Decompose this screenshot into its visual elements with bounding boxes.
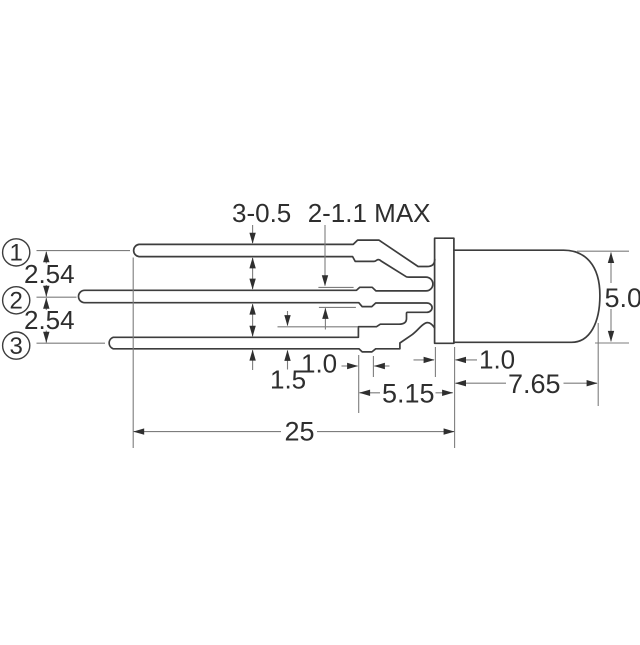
pin circle 3 xyxy=(3,332,30,359)
extension line lead1 left end xyxy=(132,258,134,449)
dim 1.5 xyxy=(287,311,289,326)
reference line lead2 coin bottom xyxy=(319,306,356,308)
extension line lead3 coin left xyxy=(358,355,360,413)
extension line lead3 coin right xyxy=(372,356,374,377)
pin circle 2 xyxy=(3,287,30,314)
3-0.5 arrow chain xyxy=(252,225,254,243)
leadframe outline: lead 1, slot, lead 2, slot, lead 3 head xyxy=(78,240,434,352)
reference line lead3 head top xyxy=(278,326,359,328)
reference line lead2 coin top xyxy=(318,286,353,288)
svg-text:25: 25 xyxy=(285,417,315,447)
leader line pin 1 xyxy=(37,250,131,252)
leader line pin 3 xyxy=(37,342,106,344)
svg-text:7.65: 7.65 xyxy=(508,369,561,399)
svg-text:2.54: 2.54 xyxy=(24,259,75,289)
svg-text:3: 3 xyxy=(10,333,23,360)
dome body xyxy=(454,250,600,342)
svg-text:1: 1 xyxy=(10,240,23,267)
flange xyxy=(435,238,454,343)
dim 5.15 xyxy=(359,392,380,394)
svg-text:5.15: 5.15 xyxy=(382,379,435,409)
svg-text:3-0.5: 3-0.5 xyxy=(232,198,291,228)
dim 1.0 flange xyxy=(414,359,435,361)
svg-text:5.0: 5.0 xyxy=(605,283,640,313)
svg-text:1.0: 1.0 xyxy=(301,349,337,379)
svg-text:2-1.1 MAX: 2-1.1 MAX xyxy=(308,198,431,228)
pin circle 1 xyxy=(3,239,30,266)
extension line dome bottom xyxy=(595,342,629,344)
leader line pin 2 xyxy=(37,296,77,298)
extension line dome right xyxy=(597,323,599,406)
2-1.1 arrows xyxy=(324,225,326,286)
dim 7.65 xyxy=(455,382,506,384)
dim 5.0 xyxy=(610,253,612,283)
dim 2.54 lower xyxy=(45,298,47,310)
dim 2.54 upper xyxy=(45,252,47,264)
extension line flange right xyxy=(454,347,456,448)
dim 25 xyxy=(134,431,281,433)
extension line dome top xyxy=(577,250,629,252)
extension line flange left xyxy=(434,347,436,377)
svg-text:2.54: 2.54 xyxy=(24,305,75,335)
svg-text:2: 2 xyxy=(10,288,23,315)
